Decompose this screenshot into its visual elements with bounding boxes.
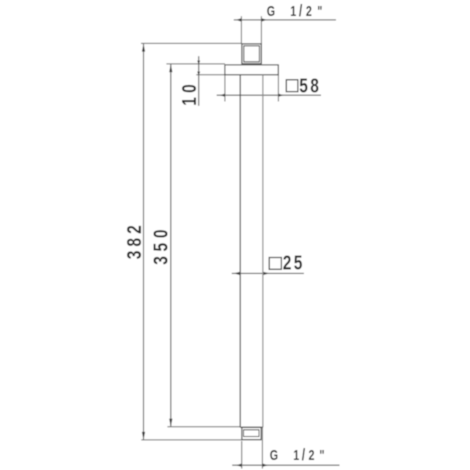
sq25 arrow right <box>263 272 269 275</box>
bottom fitting inner <box>244 430 260 437</box>
bottom dimension line G 1/2 <box>232 464 339 466</box>
square 25 dimension line <box>232 272 304 274</box>
sq25 arrow left <box>234 272 240 275</box>
tube bottom edge <box>240 426 263 428</box>
350 arrow top <box>169 64 172 72</box>
svg-text:58: 58 <box>299 74 321 96</box>
top right extension line <box>260 16 262 44</box>
tube right wall <box>262 75 264 427</box>
bottom left extension line <box>241 441 243 469</box>
top left extension line <box>240 16 242 44</box>
sq58 left extension line <box>224 75 226 102</box>
bottom dim arrow right <box>262 464 267 467</box>
382 arrow bottom <box>142 432 145 440</box>
382 dimension line <box>143 43 145 440</box>
top fitting inner <box>244 46 260 62</box>
top dim arrow right <box>261 18 266 21</box>
svg-text:10: 10 <box>178 80 200 106</box>
extension line at plate top <box>166 63 225 65</box>
square 58 dimension line <box>217 94 321 96</box>
sq58 arrow left <box>220 94 225 97</box>
top dimension line G 1/2 <box>234 19 336 21</box>
382 arrow top <box>142 44 145 52</box>
sq58 square symbol <box>286 80 298 92</box>
top fitting outer <box>242 44 261 64</box>
sq58 arrow right <box>278 94 283 97</box>
bottom dim arrow left <box>236 464 241 467</box>
bottom right extension line <box>261 428 263 469</box>
350 dimension line <box>170 64 172 427</box>
extension line at tube bottom (350 bottom) <box>167 426 240 428</box>
10 arrow upper <box>197 61 200 65</box>
extension line at plate bottom <box>196 74 225 76</box>
350 arrow bottom <box>169 419 172 427</box>
10 arrow lower <box>197 72 200 76</box>
bottom fitting outer <box>242 427 261 439</box>
extension line at bottom fitting bottom (382 bottom) <box>141 439 242 441</box>
svg-text:25: 25 <box>283 252 305 274</box>
svg-text:350: 350 <box>150 225 172 265</box>
extension line at fitting top (382 top) <box>141 42 242 44</box>
sq25 square symbol <box>269 258 281 270</box>
top dim arrow left <box>236 18 241 21</box>
ceiling plate rect <box>225 65 278 75</box>
10 dimension line <box>198 56 200 106</box>
svg-text:382: 382 <box>123 221 145 259</box>
sq58 right extension line <box>277 75 279 102</box>
tube left wall <box>239 75 241 427</box>
